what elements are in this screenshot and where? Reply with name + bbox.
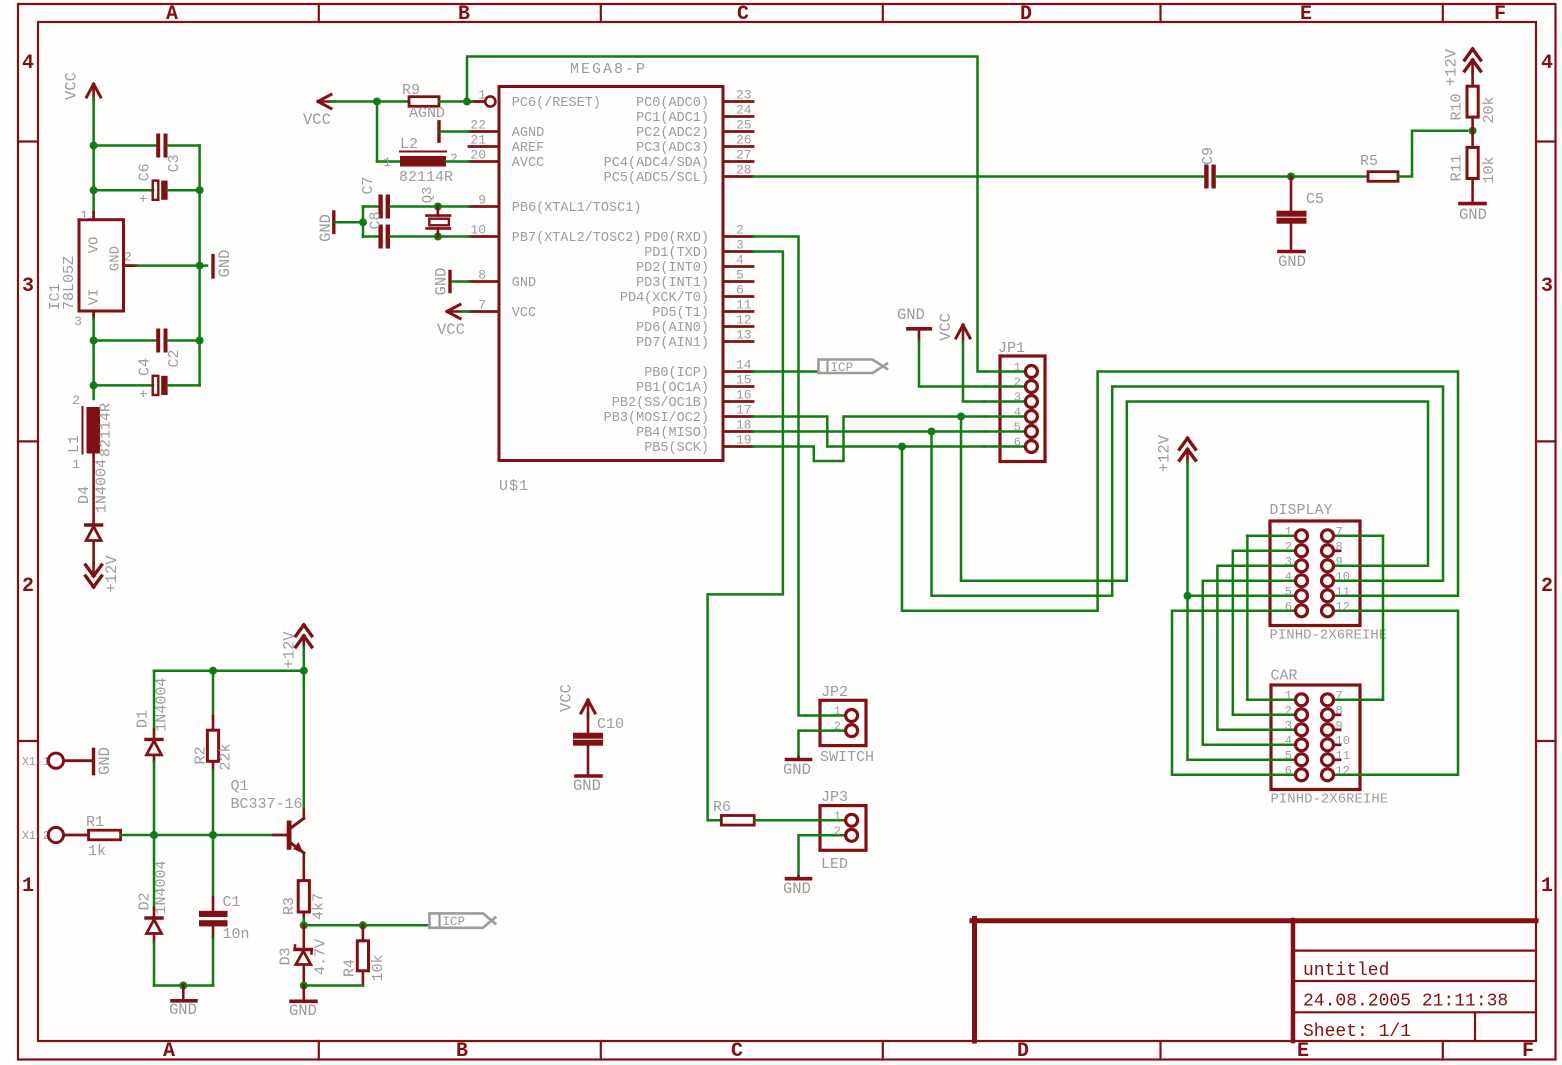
- pin 6 CAR: [1247, 774, 1295, 777]
- svg-text:2: 2: [736, 223, 744, 238]
- svg-text:C6: C6: [137, 163, 154, 181]
- connector JP1: [1000, 356, 1045, 462]
- pin 15 PB1(OC1A): [723, 385, 753, 388]
- svg-text:C4: C4: [137, 358, 154, 376]
- svg-text:R11: R11: [1449, 154, 1466, 181]
- wire miso branch down: [932, 387, 1444, 596]
- svg-text:VI: VI: [86, 289, 102, 306]
- svg-text:PD7(AIN1): PD7(AIN1): [636, 336, 709, 351]
- svg-text:VCC: VCC: [512, 306, 536, 321]
- connector DISPLAY PINHD-2X6REIHE: [1270, 521, 1360, 626]
- node junction d3 bottom: [300, 982, 308, 990]
- svg-text:10: 10: [1336, 570, 1350, 584]
- wire mosi branch down: [961, 402, 1428, 581]
- resistor R2 22k: [212, 671, 215, 716]
- svg-text:21: 21: [470, 133, 486, 148]
- svg-text:VCC: VCC: [303, 111, 331, 129]
- svg-text:14: 14: [736, 358, 752, 373]
- pin 24 PC1(ADC1): [723, 115, 753, 118]
- svg-text:10n: 10n: [223, 926, 250, 943]
- svg-text:C3: C3: [166, 154, 183, 172]
- pin 6 JP1: [985, 445, 1026, 448]
- svg-text:GND: GND: [573, 777, 601, 795]
- capacitor C10: [587, 714, 590, 733]
- pin 9 CAR: [1334, 728, 1340, 731]
- pin 7 VCC: [469, 310, 499, 313]
- pin 5 DISPLAY: [1247, 595, 1295, 598]
- ground symbol (q1): [302, 986, 305, 1000]
- wire gnd to caps: [335, 221, 363, 224]
- svg-text:2: 2: [72, 393, 80, 408]
- node junction gnd rail: [196, 262, 204, 270]
- svg-text:1: 1: [383, 155, 391, 170]
- svg-text:1: 1: [1285, 525, 1292, 539]
- svg-text:1N4004: 1N4004: [154, 678, 171, 732]
- svg-text:R3: R3: [281, 897, 298, 915]
- pin 17 PB3(MOSI/OC2): [723, 415, 753, 418]
- diode D4 1N4004: [86, 523, 102, 526]
- pin 2 CAR: [1247, 714, 1295, 717]
- svg-text:F: F: [1522, 1040, 1534, 1063]
- svg-text:8: 8: [478, 268, 486, 283]
- pin 10 CAR: [1334, 743, 1340, 746]
- pin 13 PD7(AIN1): [723, 340, 753, 343]
- svg-text:B: B: [458, 3, 470, 26]
- pin 12 DISPLAY: [1334, 610, 1383, 613]
- pin 21 AREF: [469, 145, 499, 148]
- svg-text:11: 11: [1336, 585, 1350, 599]
- svg-text:GND: GND: [289, 1002, 317, 1020]
- svg-text:11: 11: [736, 298, 752, 313]
- svg-text:B: B: [456, 1040, 468, 1063]
- crystal Q3: [437, 207, 440, 216]
- svg-text:PD1(TXD): PD1(TXD): [644, 246, 709, 261]
- svg-text:AGND: AGND: [409, 105, 445, 122]
- capacitor C8: [363, 235, 379, 238]
- wire PD1 TXD to R6: [708, 252, 783, 821]
- svg-text:GND: GND: [169, 1001, 197, 1019]
- svg-text:C10: C10: [597, 716, 624, 733]
- ground symbol C5: [1279, 250, 1304, 254]
- svg-text:PB7(XTAL2/TOSC2): PB7(XTAL2/TOSC2): [512, 231, 642, 246]
- wire icp row: [304, 924, 427, 927]
- svg-text:AVCC: AVCC: [512, 156, 544, 171]
- svg-text:4: 4: [1285, 734, 1292, 748]
- ground symbol (input): [182, 986, 185, 1000]
- wire PB3 MOSI: [753, 417, 985, 447]
- wire sck branch down: [902, 372, 1458, 611]
- pin 19 PB5(SCK): [723, 445, 753, 448]
- node junction r2 top: [209, 667, 217, 675]
- svg-text:C7: C7: [360, 176, 377, 194]
- svg-text:U$1: U$1: [499, 478, 529, 495]
- capacitor C7: [363, 205, 379, 208]
- ground symbol C10: [576, 774, 601, 778]
- svg-text:1k: 1k: [88, 843, 106, 860]
- svg-text:10: 10: [1336, 734, 1350, 748]
- svg-text:9: 9: [1336, 555, 1343, 569]
- svg-text:PC1(ADC1): PC1(ADC1): [636, 111, 709, 126]
- svg-text:JP2: JP2: [821, 684, 848, 701]
- node junction caps: [359, 218, 367, 226]
- wire L2 to AVCC pin20: [446, 160, 469, 163]
- wire display7-car7: [1382, 536, 1385, 700]
- svg-text:3: 3: [1014, 391, 1021, 405]
- svg-text:2: 2: [1285, 540, 1292, 554]
- svg-text:D1: D1: [135, 710, 152, 728]
- connector JP3 LED: [820, 806, 866, 851]
- svg-text:PB4(MISO): PB4(MISO): [636, 426, 709, 441]
- ground symbol JP3: [799, 835, 806, 876]
- svg-text:82114R: 82114R: [399, 169, 453, 186]
- pin 9 PB6(XTAL1/TOSC1): [469, 205, 499, 208]
- svg-text:C1: C1: [223, 894, 241, 911]
- svg-text:12: 12: [1336, 764, 1350, 778]
- pin 10 DISPLAY: [1334, 580, 1383, 583]
- node junction r4: [359, 921, 367, 929]
- svg-text:24.08.2005 21:11:38: 24.08.2005 21:11:38: [1303, 992, 1508, 1012]
- wire R1 to base: [121, 834, 274, 837]
- svg-text:C8: C8: [368, 211, 385, 229]
- net label ICP (flag, lower): [430, 913, 492, 927]
- wire vcc down: [92, 98, 95, 212]
- svg-text:5: 5: [1285, 585, 1292, 599]
- capacitor C9: [1204, 165, 1208, 189]
- wire display6-car6: [1172, 611, 1247, 775]
- pin 3 DISPLAY: [1247, 565, 1295, 568]
- svg-text:GND: GND: [512, 276, 536, 291]
- diode D2 1N4004: [153, 835, 156, 908]
- pin 2 JP1: [985, 385, 1026, 388]
- svg-text:+: +: [139, 387, 147, 403]
- pin 1 PC6(/RESET): [472, 100, 484, 103]
- svg-text:5: 5: [736, 268, 744, 283]
- wire pin28 to C9: [753, 175, 1204, 178]
- svg-text:R10: R10: [1449, 93, 1466, 120]
- pin 28 PC5(ADC5/SCL): [723, 175, 753, 178]
- svg-text:1: 1: [80, 208, 88, 223]
- node junction mosi: [957, 413, 965, 421]
- svg-text:18: 18: [736, 418, 752, 433]
- node junction xtal1: [434, 203, 442, 211]
- svg-text:AGND: AGND: [512, 126, 544, 141]
- svg-text:GND: GND: [317, 214, 335, 242]
- svg-text:PC3(ADC3): PC3(ADC3): [636, 141, 709, 156]
- wire +12V display5 car5: [1186, 462, 1189, 760]
- svg-text:LED: LED: [821, 856, 848, 873]
- pin 25 PC2(ADC2): [723, 130, 753, 133]
- connector JP2 SWITCH: [820, 700, 866, 745]
- svg-text:4.7V: 4.7V: [312, 939, 329, 975]
- resistor R5: [1368, 172, 1398, 182]
- wire pin2 gnd: [124, 264, 137, 267]
- vcc supply arrow (78L05 out): [87, 84, 94, 97]
- svg-text:1: 1: [22, 875, 34, 898]
- wire pin14 to ICP tag: [753, 370, 817, 373]
- wire display3-car3: [1217, 566, 1247, 730]
- svg-text:13: 13: [736, 328, 752, 343]
- svg-text:BC337-16: BC337-16: [231, 796, 303, 813]
- svg-text:GND: GND: [432, 268, 450, 296]
- svg-text:GND: GND: [783, 880, 811, 898]
- svg-text:A: A: [166, 3, 178, 26]
- node junction c6 right: [196, 186, 204, 194]
- svg-text:D2: D2: [136, 892, 153, 910]
- pin 23 PC0(ADC0): [723, 100, 753, 103]
- svg-text:Sheet: 1/1: Sheet: 1/1: [1303, 1022, 1411, 1042]
- svg-text:VO: VO: [86, 237, 102, 254]
- svg-text:3: 3: [1285, 719, 1292, 733]
- svg-text:1: 1: [1285, 689, 1292, 703]
- wire PB4 MISO: [753, 430, 985, 433]
- svg-text:PD3(INT1): PD3(INT1): [636, 276, 709, 291]
- node junction c2 right: [196, 337, 204, 345]
- svg-text:3: 3: [22, 275, 34, 298]
- svg-text:PD4(XCK/T0): PD4(XCK/T0): [620, 291, 709, 306]
- svg-text:17: 17: [736, 403, 752, 418]
- ground symbol (xtal): [332, 212, 335, 233]
- pin 3 CAR: [1247, 729, 1295, 732]
- svg-text:2: 2: [22, 575, 34, 598]
- svg-text:PC0(ADC0): PC0(ADC0): [636, 96, 709, 111]
- pin 4 JP1: [985, 415, 1026, 418]
- svg-text:PB3(MOSI/OC2): PB3(MOSI/OC2): [604, 411, 709, 426]
- svg-text:1: 1: [1014, 361, 1021, 375]
- svg-text:1: 1: [478, 88, 486, 103]
- svg-text:Q1: Q1: [231, 778, 249, 795]
- svg-text:15: 15: [736, 373, 752, 388]
- wire C9 to R5: [1216, 175, 1368, 178]
- pin 11 DISPLAY: [1334, 595, 1383, 598]
- svg-text:28: 28: [736, 163, 752, 178]
- svg-text:9: 9: [478, 193, 486, 208]
- wire R9 to pin1: [439, 100, 472, 103]
- agnd symbol at pin22: [437, 122, 440, 141]
- svg-text:7: 7: [1336, 525, 1343, 539]
- capacitor C5: [1290, 177, 1293, 212]
- +12V supply arrow (input): [92, 541, 95, 563]
- node junction sck: [898, 443, 906, 451]
- svg-text:PB5(SCK): PB5(SCK): [644, 441, 709, 456]
- wire R6 to JP3: [754, 819, 805, 822]
- svg-text:12: 12: [736, 313, 752, 328]
- svg-text:20: 20: [470, 148, 486, 163]
- svg-text:PD6(AIN0): PD6(AIN0): [636, 321, 709, 336]
- pin 9 DISPLAY: [1334, 565, 1383, 568]
- svg-text:4: 4: [1541, 52, 1553, 75]
- ground symbol X1-1: [92, 749, 95, 773]
- capacitor C2: [94, 339, 157, 342]
- pin 5 CAR: [1247, 759, 1295, 762]
- svg-text:L1: L1: [66, 435, 83, 453]
- svg-text:D3: D3: [278, 947, 295, 965]
- svg-text:10k: 10k: [1481, 156, 1498, 183]
- svg-text:MEGA8-P: MEGA8-P: [570, 61, 647, 78]
- pin 1 JP1: [985, 370, 1026, 373]
- pin 4 PD2(INT0): [723, 265, 753, 268]
- svg-text:R6: R6: [713, 799, 731, 816]
- pin 12 CAR: [1334, 774, 1383, 777]
- svg-text:7: 7: [478, 298, 486, 313]
- svg-text:JP1: JP1: [998, 340, 1025, 357]
- svg-text:DISPLAY: DISPLAY: [1270, 502, 1333, 519]
- svg-text:4k7: 4k7: [311, 893, 328, 920]
- capacitor C6 (polarized): [94, 189, 153, 192]
- svg-text:E: E: [1297, 1040, 1309, 1063]
- svg-text:6: 6: [1285, 764, 1292, 778]
- svg-text:9: 9: [1336, 719, 1343, 733]
- svg-text:PB1(OC1A): PB1(OC1A): [636, 381, 709, 396]
- net label ICP (flag): [819, 360, 884, 374]
- svg-text:+12V: +12V: [1155, 434, 1173, 472]
- svg-text:22k: 22k: [217, 743, 234, 770]
- pin 11 CAR: [1334, 758, 1340, 761]
- pin 5 PD3(INT1): [723, 280, 753, 283]
- svg-text:2: 2: [1014, 376, 1021, 390]
- resistor R1 1k: [89, 830, 121, 840]
- transistor Q1 BC337-16: [274, 834, 287, 837]
- capacitor C4 (polarized): [94, 384, 153, 387]
- svg-text:+12V: +12V: [103, 555, 121, 593]
- pin 6 DISPLAY: [1247, 610, 1295, 613]
- vcc supply arrow (reset pullup): [318, 95, 331, 102]
- pin 11 PD5(T1): [723, 310, 753, 313]
- svg-text:2: 2: [1285, 704, 1292, 718]
- svg-text:2: 2: [834, 720, 841, 734]
- resistor R4 10k: [362, 925, 365, 941]
- svg-text:PC4(ADC4/SDA): PC4(ADC4/SDA): [604, 156, 709, 171]
- node junction divider: [1469, 127, 1477, 135]
- svg-text:AREF: AREF: [512, 141, 544, 156]
- wire display2-car2: [1233, 551, 1247, 715]
- wire display1-car1: [1246, 536, 1249, 700]
- svg-text:1: 1: [834, 705, 841, 719]
- node junction display5: [1184, 592, 1192, 600]
- svg-text:1N4004: 1N4004: [94, 459, 111, 513]
- svg-text:6: 6: [1285, 600, 1292, 614]
- svg-text:C9: C9: [1200, 147, 1217, 165]
- pin 26 PC3(ADC3): [723, 145, 753, 148]
- svg-text:GND: GND: [1459, 206, 1487, 224]
- ground symbol JP2: [799, 731, 806, 757]
- svg-text:D4: D4: [76, 486, 93, 504]
- svg-text:PINHD-2X6REIHE: PINHD-2X6REIHE: [1271, 792, 1389, 808]
- svg-text:23: 23: [736, 88, 752, 103]
- svg-text:2: 2: [450, 151, 458, 166]
- svg-text:1: 1: [834, 809, 841, 823]
- resistor R6: [721, 816, 754, 826]
- svg-text:A: A: [163, 1040, 175, 1063]
- pin 20 AVCC: [469, 160, 499, 163]
- svg-text:SWITCH: SWITCH: [820, 749, 874, 766]
- svg-text:10k: 10k: [370, 954, 387, 981]
- svg-text:L2: L2: [400, 136, 418, 153]
- wire PD0 RXD to JP2: [753, 237, 806, 716]
- svg-text:PB6(XTAL1/TOSC1): PB6(XTAL1/TOSC1): [512, 201, 642, 216]
- svg-text:D: D: [1017, 1040, 1029, 1063]
- svg-text:6: 6: [736, 283, 744, 298]
- node junction d1d2: [150, 831, 158, 839]
- svg-text:4: 4: [1014, 406, 1021, 420]
- svg-text:6: 6: [1014, 436, 1021, 450]
- svg-text:R5: R5: [1360, 153, 1378, 170]
- svg-text:2: 2: [124, 249, 132, 264]
- svg-text:26: 26: [736, 133, 752, 148]
- capacitor C1 10n: [212, 835, 215, 897]
- ic U$1 MEGA8-P box: [499, 87, 723, 461]
- svg-text:C: C: [731, 1040, 743, 1063]
- connector CAR PINHD-2X6REIHE: [1271, 685, 1360, 790]
- node junction xtal2: [434, 233, 442, 241]
- node junction c4: [90, 381, 98, 389]
- svg-text:VCC: VCC: [437, 321, 465, 339]
- svg-text:10: 10: [470, 223, 486, 238]
- svg-text:2: 2: [834, 824, 841, 838]
- wire reset net to JP1 pin1: [467, 57, 985, 372]
- wire right rail: [198, 146, 201, 386]
- svg-text:VCC: VCC: [557, 684, 575, 712]
- svg-text:VCC: VCC: [62, 72, 80, 100]
- svg-text:PD2(INT0): PD2(INT0): [636, 261, 709, 276]
- pin 6 PD4(XCK/T0): [723, 295, 753, 298]
- ground symbol at pin8: [448, 272, 451, 292]
- wire display12-car12: [1383, 611, 1458, 775]
- svg-text:1N4004: 1N4004: [153, 860, 170, 914]
- pin 2 PD0(RXD): [723, 235, 753, 238]
- node junction c5: [1287, 173, 1295, 181]
- resistor R10 20k: [1471, 71, 1474, 86]
- node junction miso: [928, 428, 936, 436]
- svg-text:20k: 20k: [1481, 96, 1498, 123]
- pin 22 AGND: [469, 130, 499, 133]
- svg-text:78L05Z: 78L05Z: [61, 256, 78, 310]
- resistor R9: [409, 97, 439, 107]
- wire R5 to divider: [1398, 131, 1467, 177]
- svg-text:GND: GND: [96, 747, 114, 775]
- pin 1 DISPLAY: [1247, 535, 1295, 538]
- svg-text:3: 3: [1541, 275, 1553, 298]
- svg-text:VCC: VCC: [937, 313, 955, 341]
- node junction icp: [300, 921, 308, 929]
- +12V rail top: [154, 669, 304, 672]
- title block: [972, 918, 1536, 923]
- svg-text:GND: GND: [897, 306, 925, 324]
- node junction c3: [90, 142, 98, 150]
- wire L1 to D4: [92, 454, 95, 526]
- svg-text:E: E: [1300, 3, 1312, 26]
- wire PB5 SCK: [753, 447, 985, 462]
- svg-text:3: 3: [1285, 555, 1292, 569]
- ground symbol (reg): [200, 264, 207, 267]
- vcc arrow above JP1: [956, 325, 963, 338]
- svg-text:PB2(SS/OC1B): PB2(SS/OC1B): [612, 396, 709, 411]
- svg-text:4: 4: [1285, 570, 1292, 584]
- svg-text:PC6(/RESET): PC6(/RESET): [512, 96, 601, 111]
- svg-text:5: 5: [1014, 421, 1021, 435]
- svg-text:ICP: ICP: [831, 361, 854, 375]
- svg-text:+: +: [139, 192, 147, 208]
- svg-text:3: 3: [74, 314, 82, 329]
- +12V supply arrow (q1): [296, 625, 304, 636]
- svg-text:PINHD-2X6REIHE: PINHD-2X6REIHE: [1270, 628, 1388, 644]
- node junction c2: [90, 337, 98, 345]
- svg-text:X1-2: X1-2: [22, 830, 50, 843]
- svg-text:ICP: ICP: [443, 915, 466, 929]
- wire L2 branch: [376, 102, 379, 162]
- svg-text:CAR: CAR: [1271, 668, 1298, 685]
- svg-text:1: 1: [1541, 875, 1553, 898]
- node junction c6: [90, 186, 98, 194]
